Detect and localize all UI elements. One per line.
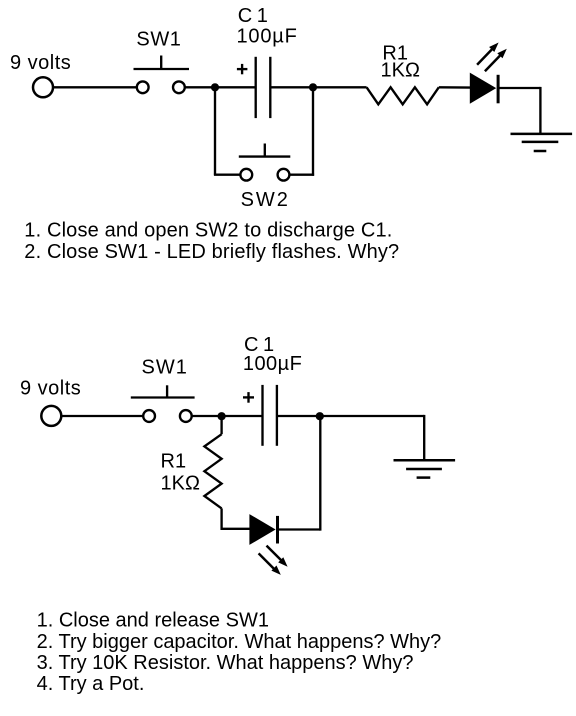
ground symbol (bottom): [394, 459, 456, 462]
junction node A (top rail / SW2 branch): [211, 83, 219, 91]
wire node C down to resistor R1 (bottom): [220, 416, 222, 434]
wire from 9V terminal to SW1 left contact (bottom): [62, 415, 144, 417]
switch SW2 pushbutton actuator bar: [239, 155, 290, 157]
svg-text:1. Close and release SW1: 1. Close and release SW1: [37, 610, 269, 632]
wire down to ground symbol (bottom): [423, 415, 425, 460]
LED D1 light-emission arrow 1 (bottom): [267, 546, 282, 561]
svg-text:100µF: 100µF: [243, 353, 302, 375]
LED D1 triangle (bottom, anode): [249, 514, 275, 545]
svg-text:R1: R1: [161, 450, 187, 472]
svg-text:2. Try bigger capacitor. What: 2. Try bigger capacitor. What happens? W…: [37, 631, 442, 653]
capacitor C1 right plate (bottom): [276, 385, 278, 446]
svg-text:4. Try a Pot.: 4. Try a Pot.: [37, 673, 145, 695]
switch SW2 right contact: [278, 169, 290, 181]
LED D1 triangle (top, anode): [470, 73, 496, 104]
LED D1 light-emission arrow 2 (top): [485, 55, 501, 71]
svg-text:2. Close SW1 - LED briefly fla: 2. Close SW1 - LED briefly flashes. Why?: [24, 241, 399, 263]
LED D1 light-emission arrow 1 (top): [477, 49, 492, 65]
switch SW1 left contact (top): [137, 81, 149, 93]
capacitor C1 right plate (top): [269, 57, 271, 118]
svg-text:1KΩ: 1KΩ: [381, 60, 420, 82]
svg-text:3. Try 10K Resistor. What happ: 3. Try 10K Resistor. What happens? Why?: [37, 652, 414, 674]
wire SW2 loop bottom-left segment: [214, 174, 241, 176]
capacitor C1 left plate (bottom): [261, 385, 263, 446]
capacitor C1 polarity plus sign (bottom): [243, 396, 254, 398]
junction node D (bottom rail / LED return): [316, 412, 324, 420]
switch SW1 right contact (bottom): [180, 410, 192, 422]
junction node B (top rail / SW2 return): [309, 83, 317, 91]
switch SW1 right contact (top): [173, 81, 185, 93]
wire R1 to LED anode (top): [439, 86, 471, 89]
capacitor C1 left plate (top): [255, 57, 257, 118]
ground symbol (top): [511, 133, 573, 136]
switch SW1 left contact (bottom): [143, 410, 155, 422]
svg-text:C1: C1: [238, 5, 273, 27]
wire LED cathode to node D (bottom): [278, 528, 321, 530]
resistor R1 zigzag body (top): [367, 87, 439, 104]
LED D1 light-emission arrow 2 (bottom): [259, 553, 275, 569]
battery terminal circle (top, 9V source): [33, 77, 53, 97]
wire SW2 loop bottom-right segment: [289, 174, 314, 176]
wire C1 right plate to ground corner (bottom rail): [277, 415, 424, 417]
svg-text:1. Close and open SW2 to disch: 1. Close and open SW2 to discharge C1.: [24, 220, 392, 242]
wire C1 right plate to resistor R1 (top rail): [270, 86, 366, 88]
LED D1 cathode bar (top): [497, 75, 500, 104]
wire SW2 right contact up to node B: [312, 87, 314, 176]
battery terminal circle (bottom, 9V source): [41, 406, 61, 426]
switch SW1 pushbutton actuator bar (top): [134, 68, 190, 70]
resistor R1 zigzag body (bottom, vertical): [204, 434, 221, 508]
wire from 9V terminal to SW1 left contact: [54, 86, 137, 88]
svg-text:1KΩ: 1KΩ: [161, 472, 200, 494]
LED D1 cathode bar (bottom): [276, 516, 279, 544]
switch SW2 left contact: [240, 169, 252, 181]
svg-text:SW1: SW1: [136, 29, 181, 51]
svg-text:SW1: SW1: [142, 357, 188, 379]
wire SW1 right contact to capacitor C1 left plate (bottom): [192, 415, 263, 417]
capacitor C1 polarity plus sign (top): [237, 68, 248, 70]
svg-text:9 volts: 9 volts: [20, 378, 81, 400]
junction node C (bottom rail / R1 branch): [218, 412, 226, 420]
svg-text:SW2: SW2: [241, 189, 290, 211]
svg-text:9 volts: 9 volts: [10, 52, 71, 74]
wire node A down to SW2 loop: [214, 87, 216, 174]
switch SW1 pushbutton actuator bar (bottom): [131, 396, 195, 398]
wire resistor R1 to LED anode corner (bottom): [220, 508, 222, 530]
svg-text:100µF: 100µF: [237, 26, 298, 48]
wire LED cathode to ground (top): [498, 87, 540, 89]
wire from SW1 right contact to capacitor C1 left plate: [185, 86, 256, 88]
